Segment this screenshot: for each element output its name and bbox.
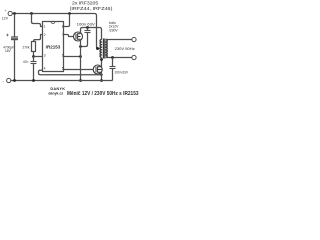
capacitor C2 47n top plate xyxy=(31,61,37,63)
wire C3 top lead xyxy=(87,28,89,31)
node junction Q2 drain primary bottom xyxy=(100,58,103,61)
svg-text:8: 8 xyxy=(62,25,64,29)
wire Q2 drain up to primary bottom xyxy=(101,58,103,67)
wire C3 bottom lead to Q1 source node xyxy=(81,33,88,47)
svg-text:12V: 12V xyxy=(2,17,9,21)
capacitor C3 100n bottom plate xyxy=(85,32,91,34)
node junction at transformer tap xyxy=(96,47,99,50)
capacitor C2 47n bottom plate xyxy=(31,63,37,65)
svg-text:1: 1 xyxy=(44,25,46,29)
wire node CT down to C2 xyxy=(33,57,35,62)
IC U1 IR2153 body xyxy=(43,22,64,72)
wire pin4 COM under Q2 to source lead xyxy=(39,70,102,75)
svg-text:3: 3 xyxy=(44,53,46,57)
svg-text:230V 50Hz: 230V 50Hz xyxy=(115,47,135,51)
svg-text:100n 63V: 100n 63V xyxy=(77,22,96,27)
label C1 plus polarity xyxy=(6,34,8,36)
wire secondary bottom to output terminal xyxy=(106,57,132,59)
node junction Q2 source at ground rail xyxy=(100,79,103,82)
wire Q1 source down to ground rail xyxy=(80,39,82,80)
wire C1 bottom lead xyxy=(14,39,16,80)
svg-text:/230V: /230V xyxy=(109,28,119,32)
wire Q1 drain up and right to primary top xyxy=(81,28,102,40)
IC U1 notch xyxy=(51,22,55,24)
node junction Q1 source at ground rail xyxy=(79,79,82,82)
transformer T1 core line right xyxy=(104,39,106,59)
transformer T1 secondary winding xyxy=(106,40,107,58)
wire node CT to pin3 xyxy=(34,56,43,58)
wire pin7 HO to Q1 gate xyxy=(64,35,74,37)
wire pin5 LO to Q2 gate xyxy=(64,69,94,71)
svg-text:6: 6 xyxy=(62,53,64,57)
node junction C3 top on drain wire xyxy=(86,26,89,29)
wire Q2 source down to ground rail xyxy=(101,72,103,80)
capacitor C4 100n bottom plate xyxy=(110,68,116,70)
wire pin8 VB up to rail xyxy=(64,14,70,27)
svg-text:2: 2 xyxy=(44,33,46,37)
svg-text:IR2153: IR2153 xyxy=(46,44,61,49)
svg-text:2x IRF3205: 2x IRF3205 xyxy=(72,0,99,5)
terminal output top 230V xyxy=(132,37,136,41)
transformer T1 core line left xyxy=(102,39,104,59)
wire C4 top lead xyxy=(112,58,114,67)
svg-text:100n 63V: 100n 63V xyxy=(114,71,129,75)
node junction top rail at pin1 branch xyxy=(30,12,33,15)
svg-text:7: 7 xyxy=(62,33,64,37)
wire ground rail xyxy=(11,80,113,82)
svg-text:danyk.cz: danyk.cz xyxy=(48,91,63,95)
svg-text:47n: 47n xyxy=(23,60,29,64)
transistor Q2 IRF3205 circle xyxy=(93,65,102,74)
wire pin6 VS to Q1 source line xyxy=(64,56,81,58)
terminal output bottom 230V xyxy=(132,55,136,59)
svg-text:4: 4 xyxy=(44,66,46,70)
wire pin2 RT down to R1 xyxy=(34,35,43,42)
node CT junction xyxy=(32,55,35,58)
wire C4 bottom lead to ground rail xyxy=(112,69,114,81)
svg-text:16V: 16V xyxy=(5,49,12,53)
capacitor C1 4700uF electrolytic top plate xyxy=(11,36,18,38)
node junction top rail at pin8 branch xyxy=(68,12,71,15)
transistor Q2 internals xyxy=(96,66,102,72)
node junction C3 bottom on source line xyxy=(79,45,82,48)
transformer T1 primary winding xyxy=(100,40,101,58)
wire top rail +12V with corner down to transformer tap xyxy=(12,14,100,49)
wire R1 bottom to node CT xyxy=(33,52,35,57)
node junction pin4 wire at Q2 source lead xyxy=(100,74,102,76)
node junction C2 at ground rail xyxy=(32,79,35,82)
resistor R1 270k xyxy=(32,42,36,52)
wire C1 top lead xyxy=(14,14,16,38)
capacitor C1 thick bottom plate xyxy=(11,38,18,40)
svg-text:270k: 270k xyxy=(23,45,30,49)
node junction C4 branch xyxy=(111,56,114,59)
transistor Q1 IRF3205 circle xyxy=(74,32,83,41)
node junction C1 at ground rail xyxy=(13,79,16,82)
capacitor C4 100n top plate xyxy=(110,66,116,68)
node junction top rail at C1 xyxy=(13,12,16,15)
terminal +12V xyxy=(8,11,12,15)
svg-text:(IRFZ44, IRFZ46): (IRFZ44, IRFZ46) xyxy=(70,6,113,11)
svg-text:+: + xyxy=(5,9,7,13)
capacitor C3 100n top plate xyxy=(85,30,91,32)
wire C2 bottom lead to ground rail xyxy=(33,64,35,81)
transistor Q1 internals xyxy=(76,33,81,39)
wire pin1 VCC from rail xyxy=(32,14,43,27)
node junction VS on source line xyxy=(79,55,82,58)
svg-text:Měnič 12V / 230V 50Hz s IR2153: Měnič 12V / 230V 50Hz s IR2153 xyxy=(67,91,139,97)
svg-text:DANYK: DANYK xyxy=(50,86,65,91)
wire secondary top to output terminal xyxy=(106,39,132,41)
svg-text:5: 5 xyxy=(62,66,64,70)
terminal minus xyxy=(7,78,11,82)
